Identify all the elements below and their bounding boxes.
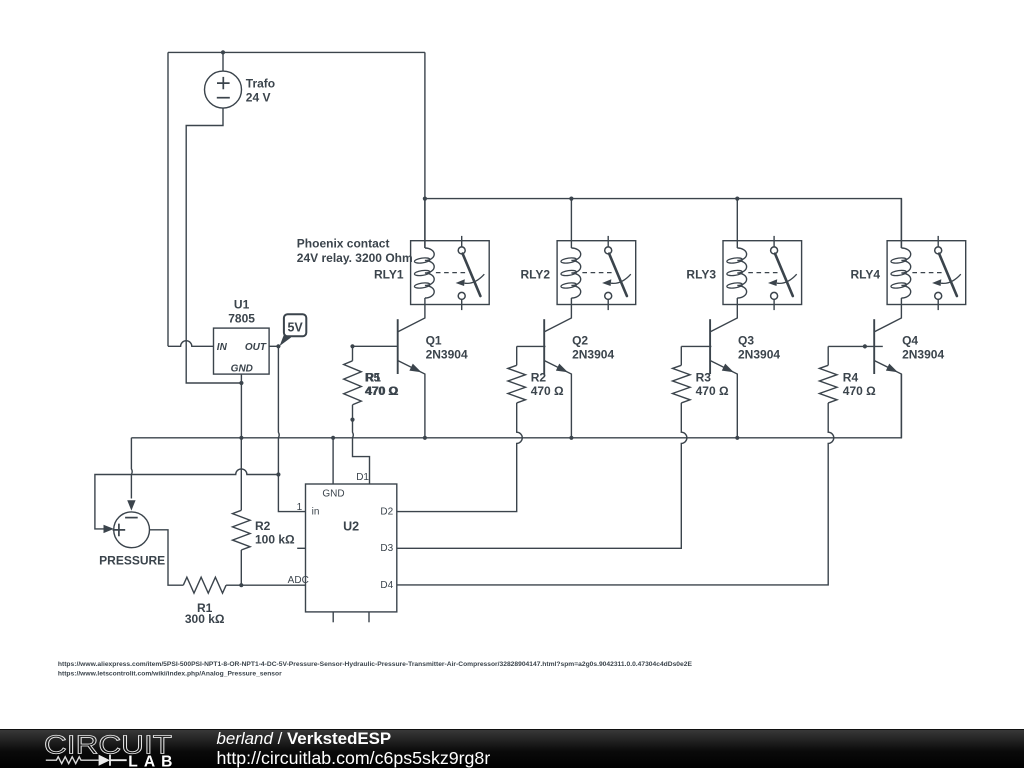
relay RLY3 switch NO pin (771, 292, 778, 299)
svg-text:2N3904: 2N3904 (426, 348, 468, 362)
svg-text:GND: GND (322, 488, 344, 499)
relay RLY2 arrow (611, 274, 631, 283)
node junction top rail / trafo (221, 50, 225, 54)
wire coil bottom RLY4 (900, 298, 902, 305)
wire top rail (168, 51, 425, 53)
relay RLY1 blade (463, 254, 481, 296)
svg-text:D1: D1 (356, 472, 369, 483)
relay RLY4 switch common pin (937, 236, 939, 247)
transistor Q3 collector (710, 305, 737, 332)
node rail junction RLY1 (423, 197, 427, 201)
wire coil feed RLY4 (900, 199, 902, 248)
wire Q1 base (353, 345, 399, 347)
relay RLY4 coil (901, 248, 910, 298)
relay RLY4 switch NO pin (935, 292, 942, 299)
svg-text:R4: R4 (843, 371, 859, 385)
pin stub U2 bottom 1 (332, 612, 334, 622)
wire Q2 base (517, 345, 546, 347)
node U2 GND bus junction (331, 436, 335, 440)
relay RLY4 blade (939, 254, 957, 296)
wire U1 OUT to 5V node (269, 345, 278, 347)
wire Q3 base (681, 345, 711, 347)
node Q3 emitter bus junction (735, 436, 739, 440)
relay RLY1 coil (425, 248, 434, 298)
relay RLY3 blade (775, 254, 793, 296)
svg-text:470 Ω: 470 Ω (531, 384, 564, 398)
relay RLY1 switch NO pin (458, 292, 465, 299)
svg-text:OUT: OUT (245, 342, 267, 353)
svg-text:RLY3: RLY3 (686, 268, 716, 282)
relay RLY2 dashed actuator link (582, 272, 611, 274)
relay RLY4 box (887, 241, 966, 305)
wire left vertical from top rail to U1 IN row (167, 52, 169, 346)
node rail junction RLY3 (735, 197, 739, 201)
svg-text:Q4: Q4 (902, 334, 918, 348)
wire vertical into relay rail (424, 52, 426, 248)
relay RLY2 coil (571, 248, 580, 298)
footer bar (0, 729, 1024, 768)
svg-text:Q3: Q3 (738, 334, 754, 348)
wire coil bottom RLY2 (570, 298, 572, 305)
transistor Q2 emitter (544, 361, 571, 438)
node Q2 emitter bus junction (569, 436, 573, 440)
svg-text:D3: D3 (380, 543, 393, 554)
relay RLY1 switch common pin (461, 236, 463, 247)
svg-text:GND: GND (231, 363, 253, 374)
resistor R2 100k (240, 438, 242, 511)
node R5 top (350, 344, 354, 348)
source PRESSURE (114, 512, 150, 548)
svg-text:IN: IN (217, 342, 228, 353)
transistor Q1 emitter (398, 361, 425, 438)
node in-chain T junction (276, 472, 280, 476)
IC U2 box (306, 484, 397, 612)
transistor Q2 base bar (543, 319, 545, 374)
footer attribution text (217, 731, 491, 765)
relay RLY1 dashed actuator link (436, 272, 465, 274)
relay RLY4 dashed actuator link (912, 272, 941, 274)
svg-text:24 V: 24 V (246, 91, 271, 105)
svg-text:R3: R3 (696, 371, 712, 385)
transistor Q4 base bar (873, 319, 875, 374)
relay RLY2 switch NO pin (605, 292, 612, 299)
svg-text:D2: D2 (380, 507, 393, 518)
svg-text:470 Ω: 470 Ω (696, 384, 729, 398)
wire U1 GND down to ground bus (240, 374, 242, 438)
svg-text:D4: D4 (380, 580, 393, 591)
svg-text:300 kΩ: 300 kΩ (185, 612, 225, 626)
relay RLY3 coil (737, 248, 746, 298)
logo resistor+diode line (46, 756, 99, 763)
svg-text:RLY4: RLY4 (851, 268, 881, 282)
svg-text:in: in (312, 506, 320, 517)
wire D2 from U2 up through bus hop to resistor (397, 403, 523, 512)
flag 5V (280, 334, 292, 346)
relay RLY2 switch common pin (607, 236, 609, 247)
node Q1 emitter bus junction (423, 436, 427, 440)
resistor R3 470 (673, 365, 691, 403)
wire relay supply rail (425, 199, 902, 248)
svg-text:LAB: LAB (128, 753, 178, 768)
svg-text:470 Ω: 470 Ω (843, 384, 876, 398)
node U1 GND bus junction (239, 436, 243, 440)
wire ADC into U2 (241, 584, 305, 586)
pin stub U2 bottom 2 (368, 612, 370, 622)
relay RLY3 dashed actuator link (748, 272, 777, 274)
svg-text:https://www.aliexpress.com/ite: https://www.aliexpress.com/item/5PSI-500… (58, 661, 693, 668)
wire D3 from U2 up through bus hop to resistor (397, 403, 687, 548)
transistor Q2 collector (544, 305, 571, 332)
svg-text:Q1: Q1 (426, 334, 442, 348)
svg-text:2N3904: 2N3904 (902, 348, 944, 362)
relay RLY3 switch common pin (773, 236, 775, 247)
node Q4 base wire junction (863, 344, 867, 348)
arrow into pressure minus (127, 500, 135, 510)
transistor Q1 base bar (397, 319, 399, 374)
CircuitLab logo (0, 730, 190, 768)
transistor Q1 collector (398, 305, 425, 332)
relay RLY3 box (723, 241, 802, 305)
transistor Q4 collector (874, 305, 901, 332)
node rail junction RLY2 (569, 197, 573, 201)
svg-text:2N3904: 2N3904 (572, 348, 614, 362)
svg-text:24V relay. 3200 Ohm: 24V relay. 3200 Ohm (297, 251, 413, 265)
wire bus left end down to pressure minus, hop (130, 438, 133, 499)
node U1 GND / trafo return junction (239, 381, 243, 385)
node R1/R2/ADC junction (239, 583, 243, 587)
wire coil feed RLY1 (424, 199, 426, 248)
node R5 bottom (350, 418, 354, 422)
relay RLY2 blade (609, 254, 627, 296)
svg-text:PRESSURE: PRESSURE (99, 554, 165, 568)
transistor Q3 base bar (709, 319, 711, 374)
transistor Q3 emitter (710, 361, 737, 438)
resistor R5 470 (352, 346, 354, 361)
svg-text:2N3904: 2N3904 (738, 348, 780, 362)
relay RLY3 arrow (777, 274, 797, 283)
svg-text:R2: R2 (255, 519, 271, 533)
wire D4 from U2 up through bus hop to resistor (397, 403, 834, 585)
svg-text:Q2: Q2 (572, 334, 588, 348)
pin stub U2 left unused (297, 547, 305, 549)
svg-text:Phoenix contact: Phoenix contact (297, 237, 390, 251)
svg-text:Trafo: Trafo (246, 77, 275, 91)
relay RLY1 box (411, 241, 490, 305)
voltage source V1 Trafo 24V (222, 52, 224, 71)
node OUT 5V (276, 344, 280, 348)
svg-text:1: 1 (297, 502, 303, 513)
wire U1 IN with hop (168, 341, 214, 347)
wire to pressure plus with hop over R2 column (95, 469, 279, 529)
svg-text:R1: R1 (366, 371, 382, 385)
regulator U1 7805 box (214, 328, 270, 374)
wire U2 GND pin to bus (332, 438, 334, 484)
resistor R4 470 (819, 365, 837, 403)
transistor Q4 emitter (874, 361, 901, 438)
wire D1 from R5 to U2, hop over bus (353, 420, 370, 484)
svg-text:5V: 5V (287, 320, 303, 334)
svg-text:470 Ω: 470 Ω (366, 384, 399, 398)
wire coil feed RLY2 (570, 199, 572, 248)
resistor R2 470 (508, 365, 526, 403)
resistor R1 300k (183, 577, 226, 593)
svg-text:ADC: ADC (288, 575, 309, 586)
svg-text:RLY1: RLY1 (374, 268, 404, 282)
relay RLY1 arrow (465, 274, 485, 283)
svg-text:U2: U2 (343, 519, 359, 533)
relay RLY4 arrow (941, 274, 961, 283)
wire Q4 base (828, 345, 883, 347)
wire pressure output (150, 530, 184, 585)
svg-text:U1: U1 (234, 298, 250, 312)
wire coil bottom RLY1 (424, 298, 426, 305)
wire coil feed RLY3 (736, 199, 738, 248)
wire R1 to ADC node (226, 584, 241, 586)
svg-text:100 kΩ: 100 kΩ (255, 533, 295, 547)
svg-text:RLY2: RLY2 (521, 268, 551, 282)
wire coil bottom RLY3 (736, 298, 738, 305)
wire ground bus (131, 374, 901, 438)
arrow into pressure plus (104, 525, 114, 533)
svg-text:7805: 7805 (228, 312, 255, 326)
relay RLY2 box (557, 241, 636, 305)
svg-text:https://www.letscontrolit.com/: https://www.letscontrolit.com/wiki/index… (58, 670, 282, 677)
wire 5V node down to U2 in, hop over bus (278, 346, 305, 511)
